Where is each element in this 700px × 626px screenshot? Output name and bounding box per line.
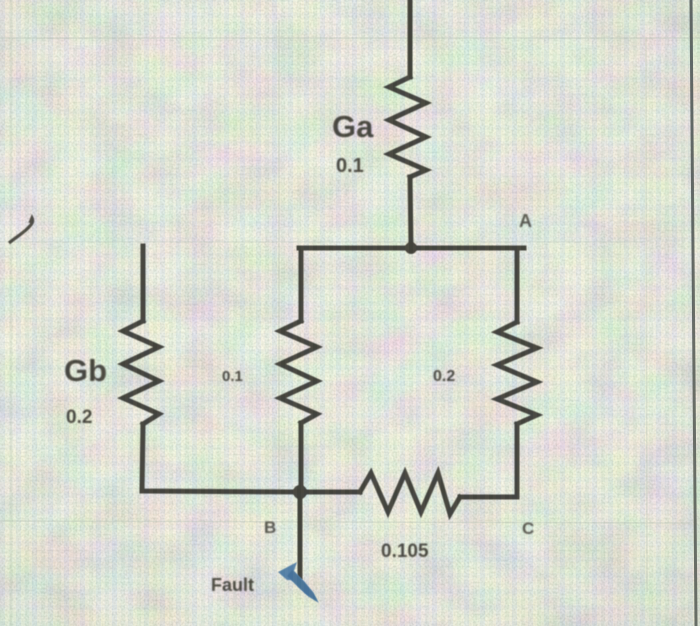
wire: middle branch lower segment to node B	[299, 423, 304, 492]
svg-text:Fault: Fault	[211, 575, 254, 595]
node A junction dot	[405, 242, 417, 254]
svg-text:A: A	[519, 211, 532, 231]
svg-text:0.2: 0.2	[66, 407, 92, 428]
value label 0.1 (middle branch)	[222, 368, 243, 385]
page edge line (decorative)	[691, 0, 696, 626]
node B junction dot	[293, 485, 307, 499]
resistor 0.2 (right branch zigzag)	[497, 322, 537, 424]
svg-text:0.2: 0.2	[433, 368, 455, 385]
wire: node B to resistor 0.105	[301, 490, 360, 495]
svg-text:0.1: 0.1	[336, 155, 364, 177]
wire: right branch upper segment	[515, 248, 520, 322]
resistor 0.1 (middle branch zigzag)	[280, 321, 317, 423]
wire: top bus through node A	[299, 246, 524, 251]
value label 0.1 (Ga)	[336, 155, 364, 177]
wire: Gb lower segment and bottom-left bus to node B	[142, 424, 301, 492]
generator reactance Gb (zigzag)	[123, 321, 159, 424]
wire: middle branch upper segment	[299, 248, 304, 321]
svg-text:0.105: 0.105	[381, 541, 429, 562]
label Ga	[332, 109, 374, 144]
value label 0.2 (Gb)	[66, 407, 92, 428]
wire: Gb top stub	[141, 246, 146, 321]
fault arrow (blue lightning bolt)	[278, 562, 319, 603]
wire: resistor 0.105 to node C corner	[460, 495, 517, 500]
resistor 0.105 (horizontal zigzag between B and C)	[360, 473, 460, 514]
wire: right branch lower segment to node C	[515, 424, 520, 497]
label Gb	[64, 353, 107, 388]
wire: node B down to fault point	[298, 492, 303, 577]
node label B	[264, 518, 276, 537]
generator reactance Ga (zigzag)	[389, 77, 426, 177]
label Fault	[211, 575, 254, 595]
node label A	[519, 211, 532, 231]
wire: supply lead into Ga	[408, 0, 413, 77]
svg-text:0.1: 0.1	[222, 368, 243, 385]
svg-text:Ga: Ga	[332, 109, 374, 144]
node label C	[522, 519, 534, 538]
pen squiggle (decorative)	[9, 218, 33, 243]
svg-text:B: B	[264, 518, 276, 537]
value label 0.105	[381, 541, 429, 562]
svg-text:Gb: Gb	[64, 353, 107, 388]
value label 0.2 (right branch)	[433, 368, 455, 385]
svg-text:C: C	[522, 519, 534, 538]
wire: Ga to node A	[410, 177, 411, 248]
